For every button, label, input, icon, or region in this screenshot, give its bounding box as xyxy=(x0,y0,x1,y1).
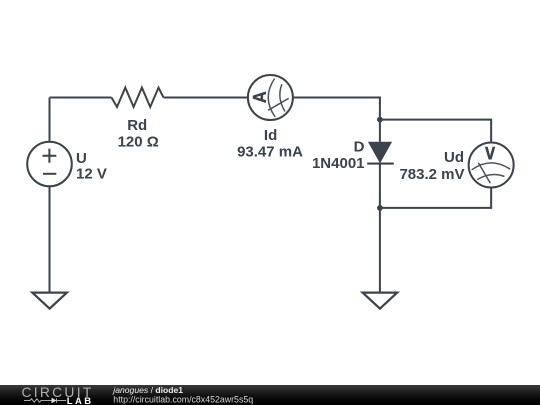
svg-text:93.47 mA: 93.47 mA xyxy=(237,143,303,160)
svg-text:783.2 mV: 783.2 mV xyxy=(399,166,464,183)
svg-text:http://circuitlab.com/c8x452aw: http://circuitlab.com/c8x452awr5s5q xyxy=(113,395,253,405)
svg-text:Id: Id xyxy=(264,127,277,144)
svg-text:LAB: LAB xyxy=(67,396,94,405)
svg-text:Ud: Ud xyxy=(444,149,464,166)
svg-text:12 V: 12 V xyxy=(76,166,107,183)
svg-text:U: U xyxy=(76,150,87,167)
svg-text:D: D xyxy=(354,139,365,156)
svg-text:janogues / diode1: janogues / diode1 xyxy=(112,385,183,395)
svg-text:120 Ω: 120 Ω xyxy=(118,133,159,150)
svg-text:Rd: Rd xyxy=(127,117,147,134)
svg-text:1N4001: 1N4001 xyxy=(312,155,365,172)
